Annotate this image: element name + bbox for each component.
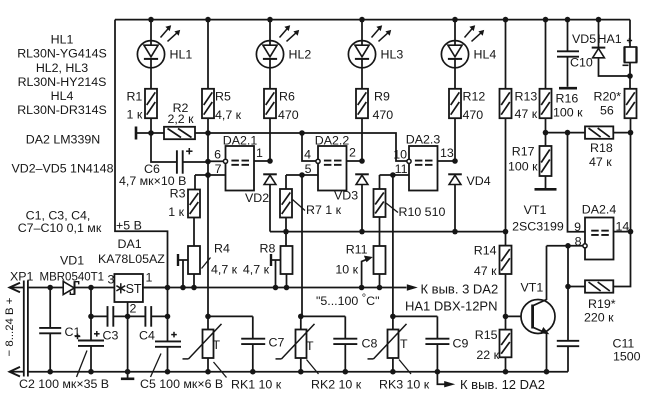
node DA2.3 label	[406, 133, 441, 147]
wire DA2.1 output	[254, 158, 273, 164]
svg-text:R14: R14	[474, 244, 497, 258]
node R9 label	[373, 89, 394, 121]
wire HL1 to R1	[150, 67, 152, 88]
wire DA1 output	[143, 287, 168, 289]
voltage regulator DA1	[114, 274, 142, 302]
wire VD5 bottom	[599, 57, 631, 76]
node C11 label	[613, 337, 641, 364]
capacitor C7	[241, 339, 265, 344]
svg-text:13: 13	[440, 146, 454, 160]
svg-text:10 к: 10 к	[335, 263, 358, 277]
node DA1 pin2	[130, 302, 137, 316]
node R6 label	[278, 89, 299, 121]
wire sensor3 node	[390, 314, 437, 320]
wire pin8 net	[547, 243, 583, 249]
capacitor C6	[177, 148, 193, 174]
wire HL4 to R12	[454, 67, 456, 88]
svg-text:R4: R4	[214, 242, 230, 256]
svg-text:T: T	[400, 337, 408, 351]
op-amp DA2.3	[407, 146, 438, 191]
node C6 label	[119, 162, 186, 188]
resistor R2	[164, 127, 195, 139]
op-amp DA2.1	[223, 146, 254, 191]
resistor R4 preset	[188, 246, 200, 274]
wire output to R19	[613, 232, 630, 287]
resistor R20	[625, 89, 637, 118]
svg-text:C2 100 мк×35 В: C2 100 мк×35 В	[19, 377, 109, 391]
wire DA2.4 output	[614, 231, 631, 233]
wire HA1 top lead	[629, 20, 631, 47]
capacitor C9	[425, 339, 449, 344]
svg-text:DA2.1: DA2.1	[223, 134, 258, 148]
node input voltage label	[4, 297, 16, 356]
capacitor C5	[155, 288, 181, 372]
resistor R18	[585, 126, 613, 138]
svg-text:XP1: XP1	[10, 270, 34, 284]
node DA2 Vcc arrow	[407, 282, 498, 297]
resistor R16	[540, 89, 552, 118]
svg-text:VD1: VD1	[60, 254, 84, 268]
resistor R17	[540, 146, 552, 176]
wire R8 bottom lead	[286, 274, 288, 288]
wire R12 bottom	[454, 118, 456, 161]
svg-text:R3: R3	[170, 187, 186, 201]
node RK1 label	[214, 362, 282, 392]
svg-text:6: 6	[214, 148, 221, 162]
resistor R13	[500, 89, 512, 118]
node pin 2	[349, 146, 356, 160]
svg-text:К выв. 3 DA2: К выв. 3 DA2	[421, 282, 499, 297]
svg-text:R13: R13	[515, 89, 538, 103]
wire reference net y133	[208, 130, 407, 161]
wire R19 left lead	[565, 284, 585, 290]
wire RK3 bottom lead	[390, 358, 396, 375]
ground common-rail bar left of R1	[136, 127, 151, 140]
node HL2 label	[289, 48, 312, 62]
svg-text:R15: R15	[475, 328, 498, 342]
svg-text:11: 11	[395, 162, 408, 176]
wire C4 to C5	[151, 315, 167, 317]
node pin 1	[256, 146, 263, 160]
svg-text:4,7 к: 4,7 к	[243, 263, 270, 277]
node R8 label	[243, 242, 276, 277]
capacitor C1	[39, 288, 61, 372]
svg-text:22 к: 22 к	[476, 348, 499, 362]
wire HL4 top lead	[452, 17, 458, 41]
node +5V label	[116, 219, 142, 233]
node VT1 label	[521, 281, 544, 295]
thermistor RK2	[276, 316, 315, 359]
svg-text:56: 56	[600, 104, 614, 118]
svg-text:9: 9	[574, 220, 581, 234]
LED HL4	[441, 25, 484, 68]
wire R7 top lead	[285, 175, 287, 189]
wire sensor2 node	[298, 314, 345, 320]
wire VT1 base lead	[506, 315, 527, 317]
svg-text:C5 100 мк×6 В: C5 100 мк×6 В	[140, 377, 223, 391]
transistor VT1	[521, 300, 555, 335]
svg-text:470: 470	[463, 108, 484, 122]
wire DA2.2 output	[347, 158, 365, 164]
wire C6 left lead	[151, 133, 176, 162]
node R14 label	[474, 244, 497, 279]
svg-text:1: 1	[256, 146, 263, 160]
wire R15 bottom lead	[503, 357, 509, 374]
wire C7 top lead	[252, 316, 254, 338]
wire HL2 top lead	[267, 17, 273, 41]
svg-text:HA1 DBX-12PN: HA1 DBX-12PN	[405, 299, 497, 314]
resistor R12	[449, 89, 461, 118]
wire R4 bottom lead	[191, 274, 197, 290]
resistor R11 preset	[374, 246, 386, 274]
svg-text:RK1 10 к: RK1 10 к	[231, 378, 282, 392]
node temperature range label	[316, 293, 380, 309]
wire +5V top rail	[115, 19, 630, 21]
wire VT1 emitter	[544, 333, 550, 375]
svg-text:RL30N-DR314S: RL30N-DR314S	[17, 103, 107, 117]
node DA1 label	[98, 237, 165, 266]
node C3 label	[103, 329, 119, 343]
svg-text:2: 2	[130, 302, 137, 316]
wire R3 top lead	[194, 175, 196, 190]
node C8 label	[362, 337, 378, 351]
resistor R19	[585, 280, 613, 292]
diode VD3	[355, 174, 369, 184]
svg-text:HL2, HL3: HL2, HL3	[36, 61, 88, 75]
resistor R8 preset	[281, 246, 293, 274]
wire common input net	[270, 229, 508, 235]
resistor R3	[188, 190, 200, 218]
svg-text:HL4: HL4	[474, 48, 497, 62]
wire R7 bottom lead	[283, 218, 289, 235]
node pin 8	[575, 234, 582, 248]
node C5 label	[140, 354, 223, 392]
wire R16 top lead	[543, 17, 549, 89]
node R11 wiper arrow	[359, 256, 373, 291]
svg-text:2,2 к: 2,2 к	[167, 112, 194, 126]
diode VD5	[592, 48, 606, 58]
node RK3 label	[379, 360, 430, 392]
wire C8 bottom lead	[343, 344, 349, 374]
capacitor C8	[333, 339, 357, 344]
wire R5 top lead	[205, 17, 211, 89]
svg-text:R6: R6	[279, 89, 295, 103]
svg-text:47 к: 47 к	[589, 155, 612, 169]
node HA1 type label	[405, 299, 497, 314]
node R20 label	[594, 89, 622, 117]
thermistor RK3	[368, 316, 409, 359]
svg-text:C8: C8	[362, 337, 378, 351]
svg-text:1: 1	[146, 271, 153, 285]
wire sensor2 column	[301, 175, 303, 316]
wire C10 ground	[559, 57, 577, 88]
svg-text:R5: R5	[215, 89, 231, 103]
node pin 4	[304, 148, 311, 162]
svg-text:R7 1 к: R7 1 к	[306, 203, 342, 217]
svg-text:C7–C10 0,1 мк: C7–C10 0,1 мк	[18, 221, 102, 235]
node R1 label	[126, 89, 142, 121]
wire C11 bottom lead	[567, 346, 569, 372]
node C10 label	[570, 56, 593, 70]
diode VD2	[263, 174, 277, 184]
svg-text:"5...100 °C": "5...100 °C"	[316, 293, 380, 309]
node R17 label	[508, 145, 538, 174]
node R7 label	[293, 200, 342, 218]
svg-text:− 8...24 В +: − 8...24 В +	[4, 297, 16, 356]
diode VD4	[448, 174, 462, 184]
svg-text:RL30N-HY214S: RL30N-HY214S	[18, 75, 107, 89]
wire pin7 net	[195, 172, 226, 178]
svg-text:R8: R8	[260, 242, 276, 256]
resistor R14	[500, 246, 512, 274]
diode VD1	[63, 281, 78, 295]
wire R1 bottom	[148, 118, 154, 136]
LED HL3	[348, 25, 391, 68]
wire R13 top lead	[503, 17, 509, 89]
svg-text:VD3: VD3	[334, 189, 358, 203]
connector XP1	[10, 281, 28, 377]
wire VT1 collector	[546, 246, 548, 300]
buzzer HA1	[625, 47, 637, 63]
wire DA1 pin2 ground	[121, 302, 134, 379]
svg-text:VD5: VD5	[572, 32, 596, 46]
node R11 label	[335, 243, 367, 277]
svg-text:R10 510: R10 510	[399, 205, 446, 219]
node R8 wiper	[271, 254, 281, 288]
node XP1 label	[10, 270, 34, 284]
wire C7 bottom lead	[250, 344, 256, 374]
wire R8 top lead	[285, 232, 287, 246]
wire input plus wire	[28, 285, 63, 291]
op-amp DA2.2	[316, 146, 347, 191]
svg-text:470: 470	[373, 108, 394, 122]
node C1 label	[65, 325, 81, 339]
svg-text:R16: R16	[556, 92, 579, 106]
svg-text:4,7 к: 4,7 к	[215, 108, 242, 122]
wire R17 ground	[535, 176, 557, 189]
LED HL2	[256, 25, 299, 68]
svg-text:VD2: VD2	[245, 191, 269, 205]
wire R10 top lead	[379, 175, 381, 189]
svg-text:C11: C11	[613, 337, 635, 351]
svg-text:DA2.2: DA2.2	[315, 134, 350, 148]
svg-text:7: 7	[215, 162, 222, 176]
capacitor C4	[145, 306, 151, 327]
svg-text:47 к: 47 к	[515, 107, 538, 121]
svg-text:R20*: R20*	[594, 89, 622, 103]
node RK2 label	[307, 360, 362, 392]
wire HL3 to R9	[361, 67, 363, 88]
node R16 label	[553, 92, 583, 120]
wire VD2 to common net	[269, 184, 271, 231]
svg-text:R17: R17	[512, 145, 535, 159]
node R2 label	[167, 101, 194, 126]
wire R10 to R11	[379, 217, 381, 246]
node R3 label	[168, 187, 185, 220]
svg-text:RK2 10 к: RK2 10 к	[311, 378, 362, 392]
wire RK1 bottom lead	[205, 358, 211, 375]
node pin 10	[393, 148, 407, 162]
svg-text:MBR0540T1: MBR0540T1	[40, 272, 105, 284]
resistor R15	[500, 330, 512, 358]
node parts list notes	[12, 33, 114, 236]
node pin 6	[214, 148, 221, 162]
node R10 label	[386, 203, 445, 219]
node HA1 minus	[623, 64, 629, 66]
wire C6 right lead	[183, 161, 208, 163]
svg-text:2: 2	[349, 146, 356, 160]
LED HL1	[137, 25, 180, 68]
wire VD1 to DA1	[75, 285, 115, 291]
wire R11 bottom lead	[377, 274, 383, 290]
wire R16 bottom	[543, 118, 549, 146]
svg-text:R19*: R19*	[588, 297, 616, 311]
svg-text:К выв. 12 DA2: К выв. 12 DA2	[460, 377, 545, 392]
svg-text:C10: C10	[570, 56, 593, 70]
wire C10 top lead	[565, 17, 571, 51]
wire RK2 bottom lead	[298, 358, 304, 375]
node R19 label	[584, 297, 616, 325]
wire R6 bottom	[269, 118, 271, 161]
node DA1 pin3	[108, 273, 115, 287]
wire R2 right lead	[195, 132, 208, 134]
node HL1 label	[170, 48, 193, 62]
wire R20 bottom column	[628, 118, 634, 234]
wire pin5 net	[286, 172, 318, 178]
wire R5 column down	[205, 118, 211, 316]
wire R13 bottom	[505, 118, 507, 245]
svg-text:DA2.3: DA2.3	[406, 133, 441, 147]
svg-text:4,7 к: 4,7 к	[211, 263, 238, 277]
node R13 label	[515, 89, 538, 120]
node R18 label	[589, 141, 613, 169]
svg-text:DA2 LM339N: DA2 LM339N	[26, 133, 100, 147]
node VD1 label	[60, 254, 84, 268]
wire sensor1 node	[205, 314, 253, 320]
svg-text:DA1: DA1	[118, 237, 142, 251]
svg-text:5: 5	[305, 162, 312, 176]
svg-text:HL1: HL1	[51, 33, 74, 47]
svg-text:R9: R9	[374, 89, 390, 103]
wire pin6 lead	[208, 160, 223, 162]
svg-text:C9: C9	[453, 337, 469, 351]
wire VD3 to common net	[359, 184, 365, 234]
node HA1 label	[598, 32, 633, 46]
wire HL2 to R6	[269, 67, 271, 88]
node pin 11	[395, 162, 408, 176]
svg-text:ST: ST	[126, 282, 142, 296]
node VT1 type label	[512, 203, 564, 234]
svg-text:2SC3199: 2SC3199	[512, 220, 564, 234]
svg-text:4: 4	[304, 148, 311, 162]
svg-text:C7: C7	[269, 336, 285, 350]
wire R18 right lead	[613, 132, 630, 134]
wire R1 junction to R2	[151, 132, 164, 134]
svg-text:HL2: HL2	[289, 48, 312, 62]
wire VD5 top lead	[596, 17, 602, 48]
svg-text:1500: 1500	[613, 350, 641, 364]
resistor R7	[280, 189, 292, 218]
node C4 label	[139, 329, 155, 343]
node HL4 label	[474, 48, 497, 62]
svg-text:T: T	[306, 339, 314, 353]
node DA2.1 label	[223, 134, 258, 148]
resistor R6	[264, 89, 276, 118]
node R5 label	[215, 89, 242, 121]
resistor R5	[202, 89, 214, 118]
wire R14 to base node	[503, 274, 509, 330]
node VD3 label	[334, 189, 358, 203]
svg-text:HL1: HL1	[170, 48, 193, 62]
svg-text:DA2.4: DA2.4	[582, 203, 617, 217]
node VD2 label	[245, 191, 269, 205]
svg-text:100 к: 100 к	[553, 106, 583, 120]
svg-text:VT1: VT1	[524, 203, 547, 217]
svg-text:HA1: HA1	[598, 32, 622, 46]
svg-text:C3: C3	[103, 329, 119, 343]
svg-text:RL30N-YG414S: RL30N-YG414S	[17, 47, 107, 61]
node VD5 label	[572, 32, 596, 46]
wire pin4 lead	[302, 133, 316, 161]
node R4 wiper	[178, 254, 188, 290]
wire R18 left lead	[546, 130, 586, 136]
capacitor C2	[75, 288, 104, 372]
svg-text:1 к: 1 к	[168, 205, 184, 219]
node VD1 type label	[40, 272, 105, 284]
thermistor RK1	[183, 316, 222, 359]
node pin 13	[440, 146, 454, 160]
svg-text:VD4: VD4	[467, 174, 491, 188]
svg-text:R18: R18	[590, 141, 613, 155]
node VD4 label	[467, 174, 491, 188]
node DA2 gnd arrow	[437, 372, 545, 392]
svg-text:VD2–VD5 1N4148: VD2–VD5 1N4148	[12, 162, 114, 176]
capacitor C11	[557, 341, 579, 346]
svg-text:HL4: HL4	[51, 89, 74, 103]
wire reference to pin9	[568, 133, 586, 232]
node R4 label	[202, 242, 238, 277]
node C2 label	[19, 351, 109, 392]
wire DA2.3 output	[438, 158, 458, 164]
node R12 label	[463, 89, 486, 121]
wire HA1 bottom lead	[627, 63, 633, 92]
capacitor C10	[557, 51, 579, 56]
wire +5V rail	[144, 285, 407, 291]
svg-text:220 к: 220 к	[584, 311, 614, 325]
svg-text:+5 В: +5 В	[116, 219, 142, 233]
node C9 label	[453, 337, 469, 351]
resistor R1	[145, 89, 157, 118]
svg-text:R1: R1	[126, 89, 142, 103]
wire R9 bottom	[361, 118, 363, 161]
wire VD4 to common net	[452, 184, 458, 234]
wire C9 top lead	[436, 316, 438, 338]
wire C2 to C3	[91, 315, 108, 317]
wire C3 to pin2	[113, 315, 145, 317]
wire C8 top lead	[344, 316, 346, 338]
node pin 7	[215, 162, 222, 176]
node DA2.2 label	[315, 134, 350, 148]
resistor R9	[356, 89, 368, 118]
node DA2.4 label	[582, 203, 617, 217]
capacitor C3	[94, 306, 113, 337]
svg-text:KA78L05AZ: KA78L05AZ	[98, 252, 165, 266]
wire sensor3 column	[392, 175, 394, 316]
node HL3 label	[381, 48, 404, 62]
svg-text:T: T	[213, 338, 221, 352]
svg-text:100 к: 100 к	[508, 160, 538, 174]
resistor R10	[374, 189, 386, 217]
